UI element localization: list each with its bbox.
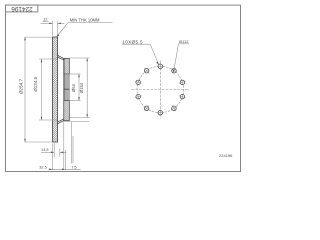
hole centre marks [134, 63, 187, 116]
svg-text:Ø134.5: Ø134.5 [33, 76, 38, 91]
svg-text:Ø112: Ø112 [179, 39, 189, 44]
svg-text:Ø64: Ø64 [71, 83, 76, 92]
hat neck top (hatched) [58, 55, 65, 60]
dia 154 (hat od): extension lines [63, 58, 90, 121]
dia 134.5: extension lines [39, 59, 57, 120]
leader 10X dia5.5 [122, 39, 159, 65]
dia 254.7: dimension line [24, 37, 26, 142]
svg-text:Ø154: Ø154 [79, 82, 84, 93]
leader MIN THK 10MM [56, 18, 112, 38]
title box [6, 5, 38, 12]
leader dia 112 [173, 39, 189, 73]
svg-text:MIN THK 10MM: MIN THK 10MM [70, 18, 100, 23]
dim 12: extension lines [53, 21, 58, 36]
svg-text:Ø254.7: Ø254.7 [19, 79, 24, 95]
pitch circle (dashed) [137, 66, 184, 113]
dia 64 (bore): dimension line [78, 74, 80, 100]
dim 13.5 [41, 148, 67, 153]
dia 134.5: dimension line [41, 59, 43, 120]
centerlines [132, 61, 190, 119]
hat plate upper (hatched) [64, 58, 70, 74]
dia 254.7: extension lines [25, 37, 55, 142]
svg-text:13.5: 13.5 [41, 148, 48, 152]
dim 12: dimension line + arrows [41, 23, 65, 25]
bolt holes x10 [136, 64, 185, 115]
dim 12: text [43, 16, 49, 21]
border frame [6, 5, 241, 171]
svg-text:224196: 224196 [219, 153, 233, 158]
hat plate lower (hatched) [64, 100, 70, 120]
centre hole edges [70, 74, 81, 100]
svg-text:32.5: 32.5 [39, 165, 47, 170]
dia 154: dimension line [86, 58, 88, 118]
svg-text:7.5: 7.5 [71, 164, 76, 169]
hat neck bottom (hatched) [58, 119, 65, 124]
dim 32.5 and 7.5 [39, 164, 80, 170]
svg-text:224196: 224196 [11, 5, 33, 12]
bottom dims: extension lines [53, 122, 74, 170]
hat plate left edge emphasis [63, 58, 65, 120]
svg-text:12: 12 [43, 16, 48, 21]
friction band (hatched) [53, 33, 58, 146]
bore surface (gray, seen through hole) [64, 74, 70, 100]
svg-text:10XØ5.5: 10XØ5.5 [122, 39, 143, 44]
